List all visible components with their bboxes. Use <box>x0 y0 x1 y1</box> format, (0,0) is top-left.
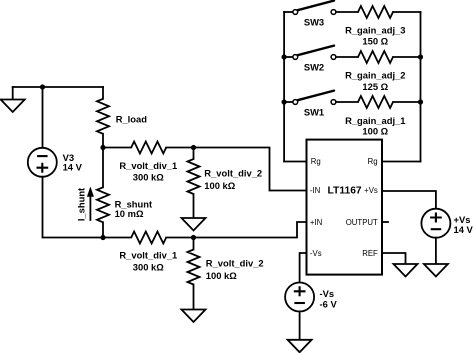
svg-text:R_volt_div_1: R_volt_div_1 <box>119 250 177 261</box>
svg-text:REF: REF <box>362 249 378 258</box>
svg-text:R_volt_div_2: R_volt_div_2 <box>204 167 262 178</box>
node junction right rail SW1 <box>418 99 423 104</box>
ground G4 under -Vs <box>288 340 312 353</box>
wire R_volt_div_2 bottom lower <box>193 285 195 310</box>
wire REF to ground <box>382 253 406 264</box>
resistor R_gain_adj_2 <box>358 51 393 63</box>
svg-text:LT1167: LT1167 <box>328 186 362 197</box>
svg-text:R_gain_adj_3: R_gain_adj_3 <box>345 25 405 36</box>
svg-text:100 Ω: 100 Ω <box>362 125 388 136</box>
svg-text:-IN: -IN <box>310 186 320 195</box>
ground G3 bottom mid <box>182 310 206 323</box>
wire ground stub top-left <box>12 87 14 100</box>
svg-text:125 Ω: 125 Ω <box>362 81 388 92</box>
pin stub OUTPUT <box>382 221 388 223</box>
wire -Vs pin to source <box>300 253 307 283</box>
resistor R_volt_div_1 bottom <box>131 232 166 244</box>
wire -Vs source to ground <box>299 312 301 340</box>
resistor R_gain_adj_1 <box>358 96 393 108</box>
ground G1 top-left <box>1 100 25 113</box>
wire Rg right pin to rail <box>382 161 421 163</box>
node junction right rail SW2 <box>418 54 423 59</box>
resistor R_load <box>97 99 109 134</box>
svg-text:300 kΩ: 300 kΩ <box>133 172 164 183</box>
resistor R_volt_div_2 top <box>188 159 200 194</box>
svg-text:SW2: SW2 <box>304 62 324 73</box>
wire right rail <box>420 12 422 162</box>
svg-text:14 V: 14 V <box>454 224 474 235</box>
svg-text:R_volt_div_1: R_volt_div_1 <box>119 160 177 171</box>
resistor R_gain_adj_3 <box>358 6 393 18</box>
resistor R_volt_div_2 bottom <box>188 250 200 285</box>
resistor R_shunt <box>97 187 109 222</box>
ground G2 mid <box>182 218 206 231</box>
wire Rg left pin to rail <box>284 161 306 163</box>
wire top-left horizontal <box>13 86 103 88</box>
wire +Vs source to ground <box>435 238 437 264</box>
ground G6 under +Vs <box>424 264 448 277</box>
wire +Vs pin to source <box>382 191 436 209</box>
node junction R_shunt bottom <box>100 235 105 240</box>
node junction left rail SW2 <box>282 54 287 59</box>
voltage source -Vs <box>285 283 314 312</box>
wire left rail <box>283 12 285 162</box>
svg-text:OUTPUT: OUTPUT <box>346 218 378 227</box>
resistor R_volt_div_1 top <box>131 142 166 154</box>
ground G5 under REF <box>394 264 418 277</box>
svg-text:I_shunt: I_shunt <box>75 188 86 221</box>
wire R_load bottom <box>102 134 104 148</box>
wire to -IN corner <box>194 148 307 191</box>
svg-text:SW3: SW3 <box>304 17 324 28</box>
wire R_gain_adj_1 to rail <box>393 101 421 103</box>
svg-text:Rg: Rg <box>368 157 378 166</box>
wire R_volt_div_2 top upper <box>193 148 195 160</box>
current arrow I_shunt <box>87 187 94 221</box>
wire R_shunt bottom <box>102 222 104 237</box>
wire R_gain_adj_3 to rail <box>393 11 421 13</box>
svg-text:+Vs: +Vs <box>364 186 378 195</box>
svg-text:R_load: R_load <box>116 114 148 125</box>
svg-text:R_volt_div_2: R_volt_div_2 <box>206 257 264 268</box>
svg-text:+IN: +IN <box>310 218 322 227</box>
switch SW1 <box>284 91 358 105</box>
svg-text:Rg: Rg <box>311 157 321 166</box>
svg-text:150 Ω: 150 Ω <box>362 36 388 47</box>
svg-text:10 mΩ: 10 mΩ <box>115 208 144 219</box>
wire bottom row left <box>103 237 131 239</box>
wire V3 bottom <box>43 177 104 238</box>
switch SW3 <box>284 1 358 15</box>
node junction left rail SW1 <box>282 99 287 104</box>
wire R_volt_div_2 bottom upper <box>193 238 195 250</box>
svg-text:100 kΩ: 100 kΩ <box>206 270 237 281</box>
wire mid row right <box>166 147 193 149</box>
svg-text:-Vs: -Vs <box>310 249 322 258</box>
svg-text:100 kΩ: 100 kΩ <box>204 180 235 191</box>
switch SW2 <box>284 46 358 60</box>
wire mid row left <box>103 147 131 149</box>
svg-text:R_gain_adj_2: R_gain_adj_2 <box>345 70 405 81</box>
svg-text:300 kΩ: 300 kΩ <box>133 262 164 273</box>
svg-text:-6 V: -6 V <box>320 298 338 309</box>
node junction mid row / R_volt_div_2 top <box>191 145 196 150</box>
wire to +IN corner <box>166 222 306 238</box>
node junction bottom row / R_volt_div_2 bottom <box>191 235 196 240</box>
wire R_shunt top <box>102 148 104 188</box>
wire V3 top <box>42 87 44 148</box>
svg-text:SW1: SW1 <box>304 107 324 118</box>
svg-text:R_gain_adj_1: R_gain_adj_1 <box>345 115 405 126</box>
voltage source +Vs <box>421 209 450 238</box>
wire R_volt_div_2 top lower <box>193 194 195 218</box>
node junction V3 top <box>40 84 45 89</box>
svg-text:-Vs: -Vs <box>320 288 335 299</box>
wire R_load top <box>102 87 104 99</box>
op-amp U1 LT1167 body <box>307 140 383 275</box>
voltage source V3 <box>28 148 57 177</box>
wire R_gain_adj_2 to rail <box>393 56 421 58</box>
node junction R_load / R_shunt / R_volt_div_1 <box>100 145 105 150</box>
svg-text:14 V: 14 V <box>63 162 83 173</box>
